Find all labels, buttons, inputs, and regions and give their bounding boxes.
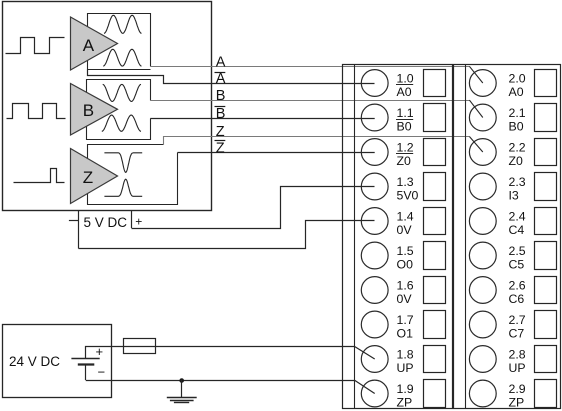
svg-text:O0: O0 [397,258,414,272]
svg-text:1.4: 1.4 [397,210,414,224]
sine wave B+ [103,84,141,101]
svg-text:−: − [98,365,106,380]
wire B-inverted to 1.1 [150,118,374,120]
svg-text:B: B [83,101,94,120]
ground bar 1 [167,397,197,399]
right block inner edge [465,65,467,409]
wire Z-inverted to 1.2 [178,152,375,154]
svg-text:24 V DC: 24 V DC [9,354,60,369]
terminal screw square 2.5 [535,242,557,270]
ground bar 2 [170,400,194,402]
terminal circle 2.6 [469,277,496,304]
wire battery minus down [85,364,87,380]
svg-text:2.2: 2.2 [509,141,526,155]
index pulse Z+ [104,153,142,173]
svg-text:C6: C6 [509,292,525,306]
wire ZP supply [86,380,355,382]
wire 5V plus to 1.3 [132,187,375,229]
svg-text:1.9: 1.9 [397,382,414,396]
svg-text:2.3: 2.3 [509,175,526,189]
terminal screw square 1.9 [424,380,446,408]
svg-text:I3: I3 [509,189,519,203]
terminal circle 2.1 [469,104,496,131]
terminal circle 1.0 [361,70,388,97]
terminal circle 1.4 [361,208,388,235]
svg-text:2.7: 2.7 [509,313,526,327]
svg-text:ZP: ZP [397,396,413,410]
svg-text:1.3: 1.3 [397,175,414,189]
svg-text:Z0: Z0 [397,154,412,168]
terminal screw square 2.3 [535,173,557,201]
svg-text:UP: UP [397,361,414,375]
wire A-inverted to 1.0 [88,70,375,84]
encoder box [3,2,212,211]
terminal screw square 1.5 [424,242,446,270]
svg-text:0V: 0V [397,292,413,306]
ground stem [181,380,183,397]
terminal circle 2.5 [469,242,496,269]
wire UP diagonal into 1.8 [354,346,375,359]
wire B diagonal into 2.1 [469,100,482,117]
terminal circle 2.9 [469,380,496,407]
wire ZP diagonal into 1.9 [354,380,375,394]
svg-text:Z: Z [83,168,93,187]
terminal screw square 2.4 [535,208,557,235]
terminal screw square 2.6 [535,277,557,304]
fuse [124,339,156,354]
svg-text:B: B [216,88,226,104]
terminal screw square 2.2 [535,139,557,166]
minus tick 5V [69,220,78,222]
index pulse Z- [104,179,142,196]
svg-text:B0: B0 [397,120,412,134]
svg-text:A: A [83,36,95,55]
terminal circle 1.5 [361,242,388,269]
svg-text:+: + [135,215,142,229]
amplifier triangle A [71,17,118,70]
amplifier triangle Z [71,149,118,204]
wire Z [164,137,470,145]
wire 5V minus to 1.4 [79,221,375,249]
svg-text:1.7: 1.7 [397,313,414,327]
terminal screw square 1.2 [424,139,446,166]
sine wave A- [103,49,141,66]
svg-text:1.5: 1.5 [397,244,414,258]
svg-text:Z: Z [216,124,225,140]
terminal screw square 1.1 [424,104,446,132]
terminal circle 2.7 [469,311,496,338]
svg-text:2.1: 2.1 [509,106,526,120]
wire 5V minus vertical [78,211,80,249]
wire Z diagonal into 2.2 [469,137,482,153]
left terminal block [343,65,453,409]
terminal circle 2.3 [469,173,496,200]
wire B [150,100,469,102]
svg-text:C4: C4 [509,223,525,237]
svg-text:C5: C5 [509,258,525,272]
plus bar 5V [131,211,133,228]
terminal screw square 1.6 [424,277,446,304]
terminal circle 1.8 [361,346,388,373]
terminal screw square 2.1 [535,104,557,132]
svg-text:UP: UP [509,361,526,375]
terminal circle 1.7 [361,311,388,338]
terminal circle 2.4 [469,208,496,235]
terminal circle 1.1 [361,104,388,131]
amplifier triangle B [71,84,118,136]
terminal circle 1.9 [361,380,388,407]
svg-text:B0: B0 [509,120,524,134]
svg-text:A: A [216,54,226,70]
svg-text:A0: A0 [397,85,412,99]
svg-text:1.2: 1.2 [397,141,414,155]
left block inner edge [354,65,356,409]
wire battery plus [86,347,355,359]
wire A [151,66,470,68]
square wave input Z [14,169,65,183]
terminal screw square 1.4 [424,208,446,235]
svg-text:0V: 0V [397,223,413,237]
svg-text:O1: O1 [397,327,414,341]
svg-text:2.8: 2.8 [509,348,526,362]
svg-text:5 V DC: 5 V DC [84,215,128,230]
svg-text:2.5: 2.5 [509,244,526,258]
svg-text:+: + [96,344,104,359]
terminal screw square 2.8 [535,346,557,373]
svg-text:Z0: Z0 [509,154,524,168]
terminal circle 2.0 [469,70,496,97]
battery short plate [78,363,95,365]
signal box A [88,14,151,70]
terminal circle 1.3 [361,173,388,200]
square wave input A [6,38,65,54]
terminal screw square 1.0 [424,70,446,97]
svg-text:2.9: 2.9 [509,382,526,396]
wire A diagonal into 2.0 [469,66,482,83]
svg-text:1.8: 1.8 [397,348,414,362]
sine wave B- [102,115,141,131]
svg-text:2.0: 2.0 [509,72,526,86]
svg-text:2.4: 2.4 [509,210,526,224]
svg-text:Z: Z [216,140,225,156]
junction dot [179,378,184,383]
terminal circle 1.2 [361,139,388,166]
svg-text:1.1: 1.1 [397,106,414,120]
terminal circle 1.6 [361,277,388,304]
svg-text:B: B [216,106,226,122]
svg-text:1.6: 1.6 [397,279,414,293]
terminal screw square 2.9 [535,380,557,408]
24 V DC box [3,325,112,398]
svg-text:1.0: 1.0 [397,72,414,86]
terminal screw square 1.7 [424,311,446,339]
terminal circle 2.8 [469,346,496,373]
terminal screw square 1.8 [424,346,446,373]
svg-text:ZP: ZP [509,396,525,410]
terminal screw square 1.3 [424,173,446,201]
ground bar 3 [174,402,189,404]
svg-text:A: A [216,71,226,87]
svg-text:C7: C7 [509,327,525,341]
svg-text:2.6: 2.6 [509,279,526,293]
square wave input B [7,104,66,119]
right terminal block [454,65,561,409]
signal box B [87,80,151,140]
terminal screw square 2.7 [535,311,557,339]
svg-text:A0: A0 [509,85,524,99]
terminal circle 2.2 [469,139,496,166]
battery long plate [71,358,99,360]
signal box Z [88,145,178,205]
terminal screw square 2.0 [535,70,557,97]
sine wave A+ [104,15,142,33]
svg-text:5V0: 5V0 [397,189,419,203]
